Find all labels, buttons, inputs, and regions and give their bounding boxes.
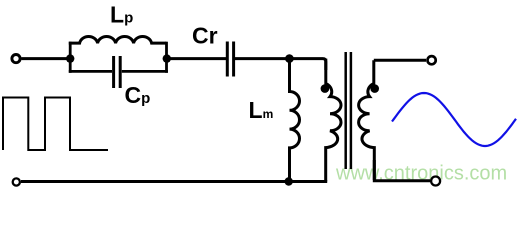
wire: input to node A [22,57,71,60]
node A (left junction of Lp/Cp) [66,54,74,62]
svg-text:Lp: Lp [110,2,133,28]
wire: bottom branch left segment [69,70,112,73]
wire: Cr to node C [235,57,289,60]
wire: secondary bottom to output terminal [374,160,430,181]
square wave input symbol [3,98,108,151]
inductor L1 Lp (top branch, 4 humps) [69,36,167,43]
capacitor C2 Cp (bottom branch) [112,56,115,88]
node D (Lm bottom junction) [285,177,293,185]
output terminal (top right) [428,56,436,64]
wire: node C to transformer primary corner [289,59,325,70]
transformer core [344,52,347,169]
wire: bottom branch right segment [122,70,168,73]
wire: node B to Cr [167,57,226,60]
svg-text:Cp: Cp [125,82,151,108]
input terminal (top left) [12,55,20,63]
svg-text:Lm: Lm [249,97,274,123]
svg-text:Cr: Cr [192,23,218,49]
transformer T1 primary winding [326,59,341,182]
transformer T1 secondary winding [359,60,375,180]
capacitor C1 Cr (series) [226,42,229,77]
transformer polarity dot (primary) [321,84,330,93]
wire: bottom rail (input side) [21,180,327,183]
output terminal (bottom right) [431,177,440,186]
bottom-left terminal [13,178,20,185]
wire: right vertical of parallel block [165,42,168,73]
transformer polarity dot (secondary) [370,84,379,93]
sine wave output symbol [392,93,516,146]
inductor L2 Lm (magnetizing, 3 loops) [290,59,300,182]
wire: secondary top to output terminal [374,59,426,62]
node C (Lm top junction) [285,54,294,63]
node B (right junction of Lp/Cp) [163,54,171,62]
wire: left vertical of parallel block [69,42,72,73]
